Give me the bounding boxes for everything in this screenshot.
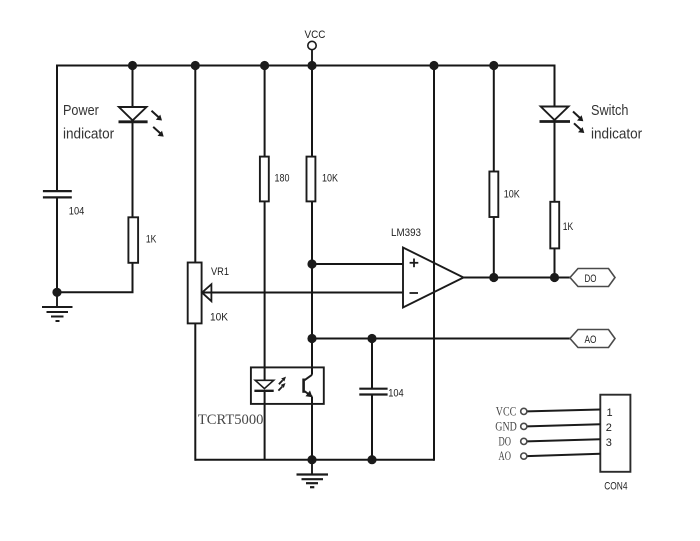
junction power-LED branch on VCC bus [128, 61, 137, 70]
node plus-input junction [307, 259, 316, 268]
svg-text:104: 104 [69, 206, 85, 218]
svg-text:10K: 10K [504, 189, 521, 201]
svg-text:AO: AO [585, 334, 597, 346]
svg-text:10K: 10K [210, 311, 229, 323]
svg-text:Switch: Switch [591, 103, 628, 119]
svg-text:2: 2 [606, 422, 612, 434]
potentiometer VR1 10K [188, 263, 212, 324]
pin AO circle [521, 453, 527, 459]
pin AO wire [527, 454, 600, 456]
svg-text:indicator: indicator [591, 126, 642, 142]
pin VCC circle [521, 408, 527, 414]
svg-text:1: 1 [607, 407, 613, 419]
emission arrows inside TCRT5000 [278, 377, 286, 391]
resistor R2 180 [260, 157, 269, 202]
LED D1 power indicator [119, 107, 164, 137]
svg-text:VR1: VR1 [211, 266, 229, 278]
junction 180-resistor branch on VCC bus [260, 61, 269, 70]
phototransistor Q1 inside TCRT5000 [304, 375, 313, 397]
node DO junction 2 [550, 273, 559, 282]
wire cap2 branch top [371, 339, 373, 389]
svg-text:180: 180 [275, 172, 290, 184]
wire VR1 bottom down [194, 323, 196, 460]
pin DO wire [527, 439, 600, 441]
junction VR1 branch on VCC bus [191, 61, 200, 70]
pin DO circle [521, 438, 527, 444]
wire TCRT LED cathode down [264, 391, 266, 460]
svg-text:indicator: indicator [63, 127, 114, 143]
node ground-left junction [52, 288, 61, 297]
LED D3 inside TCRT5000 [254, 380, 273, 391]
connector CON4 box [600, 395, 630, 472]
svg-text:DO: DO [585, 273, 597, 285]
resistor R3 10K (middle) [307, 157, 316, 202]
node DO junction 1 [489, 273, 498, 282]
svg-text:1K: 1K [563, 221, 574, 233]
ground middle [297, 460, 329, 488]
svg-text:DO: DO [499, 435, 512, 449]
TCRT5000 box [251, 367, 324, 404]
node AO junction [307, 334, 316, 343]
wire power LED branch top [132, 66, 134, 108]
wire AO line [312, 338, 570, 340]
wire vertical through op-amp [433, 66, 435, 461]
svg-text:104: 104 [388, 387, 404, 399]
wire cap to ground node [56, 197, 58, 292]
node ground-mid junction [307, 455, 316, 464]
wire op-amp output to DO [464, 277, 571, 279]
svg-text:CON4: CON4 [604, 480, 627, 492]
resistor R4 10K (right) [489, 172, 498, 218]
capacitor C1 104 [43, 191, 72, 197]
pin VCC wire [527, 410, 600, 412]
junction 10K-right branch on VCC bus [489, 61, 498, 70]
ground left [42, 292, 73, 321]
wire 10K mid down to transistor [311, 201, 313, 374]
op-amp U1 LM393 [403, 248, 464, 308]
wire top VCC bus [56, 65, 556, 67]
wire 10K right branch [493, 66, 495, 172]
wire op-amp plus input [312, 263, 403, 265]
wire 1K right to DO line [554, 248, 556, 277]
pin GND wire [527, 424, 600, 426]
wire cap2 branch bottom [371, 395, 373, 460]
svg-text:VCC: VCC [305, 29, 326, 41]
wire 180 to TCRT LED [264, 201, 266, 380]
svg-text:1K: 1K [146, 233, 157, 245]
wire 1K bottom to ground node [57, 263, 133, 293]
wire 180 branch [264, 66, 266, 157]
wire switch LED to 1K right [554, 123, 556, 202]
resistor R5 1K (right) [550, 202, 559, 249]
wire left rail down to cap [56, 65, 58, 192]
LED D2 switch indicator [540, 107, 585, 134]
svg-text:LM393: LM393 [391, 227, 421, 239]
node VCC terminal [305, 29, 326, 66]
wire 10K right to DO line [493, 217, 495, 278]
svg-text:AO: AO [499, 449, 512, 463]
terminal DO flag [570, 269, 615, 287]
wire switch LED branch [554, 65, 556, 107]
node cap2-bottom junction [367, 455, 376, 464]
resistor R1 1K (power LED) [128, 217, 138, 262]
wire VR1 wiper to op-amp minus input [203, 292, 404, 294]
wire transistor emitter to ground node [311, 397, 313, 460]
svg-text:TCRT5000: TCRT5000 [198, 412, 264, 428]
svg-text:10K: 10K [322, 172, 339, 184]
svg-text:Power: Power [63, 103, 99, 119]
junction VCC terminal on bus [307, 61, 316, 70]
capacitor C2 104 [359, 389, 387, 395]
wire power LED to 1K [132, 123, 134, 218]
wire bottom ground bus [195, 459, 434, 461]
junction op-amp supply wire on VCC bus [429, 61, 438, 70]
node AO-cap junction [367, 334, 376, 343]
svg-text:GND: GND [495, 420, 517, 434]
wire VR1 branch top [194, 66, 196, 263]
svg-text:3: 3 [606, 437, 612, 449]
terminal AO flag [570, 330, 615, 348]
pin GND circle [521, 423, 527, 429]
svg-text:VCC: VCC [496, 405, 517, 419]
wire 10K mid branch [311, 66, 313, 157]
